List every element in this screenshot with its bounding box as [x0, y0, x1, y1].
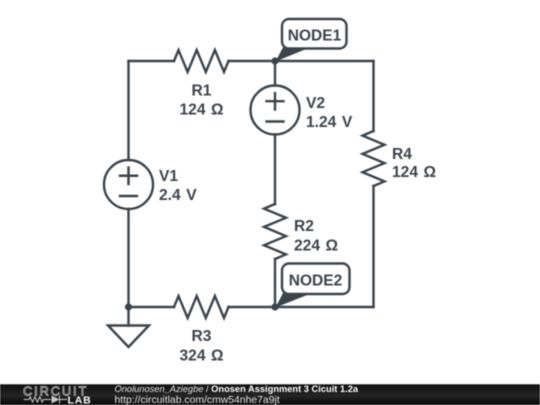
node NODE2 junction dot	[271, 303, 278, 310]
svg-text:124 Ω: 124 Ω	[392, 164, 436, 181]
wire top-right horizontal segment	[229, 60, 374, 62]
svg-text:LAB: LAB	[68, 395, 92, 405]
wire right vertical lower segment	[372, 186, 374, 307]
wire bottom-right horizontal segment	[229, 306, 374, 308]
node NODE1 junction dot	[271, 57, 278, 64]
svg-text:R3: R3	[192, 328, 212, 345]
svg-text:324 Ω: 324 Ω	[179, 348, 223, 365]
svg-text:Onolunosen_Aziegbe / Onosen As: Onolunosen_Aziegbe / Onosen Assignment 3…	[115, 384, 359, 394]
voltage source V2	[251, 86, 300, 135]
resistor R4	[363, 131, 385, 186]
svg-text:124 Ω: 124 Ω	[179, 102, 223, 119]
wire bottom-left horizontal segment	[129, 306, 175, 308]
svg-text:NODE2: NODE2	[289, 273, 342, 290]
svg-text:1.24 V: 1.24 V	[306, 114, 353, 131]
wire middle stub NODE1 to V2	[274, 61, 276, 86]
node NODE1 callout box	[282, 19, 347, 49]
node NODE2 callout pointer	[276, 292, 312, 308]
wire ground stub	[127, 307, 129, 326]
resistor R1	[174, 50, 229, 72]
node NODE1 callout pointer	[276, 47, 309, 62]
svg-text:2.4 V: 2.4 V	[159, 187, 197, 204]
resistor R2	[264, 204, 286, 259]
wire left vertical upper segment	[127, 61, 129, 160]
node ground junction dot	[125, 303, 132, 310]
wire middle R2 to NODE2	[274, 259, 276, 307]
svg-text:NODE1: NODE1	[288, 28, 342, 45]
svg-text:http://circuitlab.com/cmw54nhe: http://circuitlab.com/cmw54nhe7a9jt	[115, 395, 280, 405]
svg-text:V1: V1	[159, 168, 178, 185]
svg-text:R2: R2	[294, 218, 314, 235]
svg-text:R4: R4	[392, 146, 412, 163]
wire middle V2 to R2	[274, 135, 276, 205]
node NODE2 callout box	[282, 264, 350, 295]
svg-text:224 Ω: 224 Ω	[294, 238, 338, 255]
ground	[108, 326, 149, 348]
svg-text:V2: V2	[306, 95, 325, 112]
logo diode triangle	[52, 396, 60, 404]
wire left vertical lower segment	[127, 209, 129, 307]
logo resistor-diode glyph	[24, 396, 67, 404]
voltage source V1	[104, 160, 153, 209]
wire right vertical upper segment	[372, 61, 374, 131]
resistor R3	[174, 296, 229, 318]
wire top-left horizontal segment	[129, 60, 175, 62]
svg-text:R1: R1	[192, 83, 212, 100]
